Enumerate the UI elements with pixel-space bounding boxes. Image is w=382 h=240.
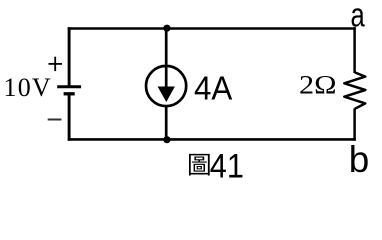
svg-text:a: a [351,0,366,34]
svg-text:4A: 4A [194,70,232,107]
svg-text:10V: 10V [4,73,52,102]
svg-text:2Ω: 2Ω [299,69,337,99]
svg-text:41: 41 [210,148,244,186]
svg-text:b: b [349,139,370,180]
